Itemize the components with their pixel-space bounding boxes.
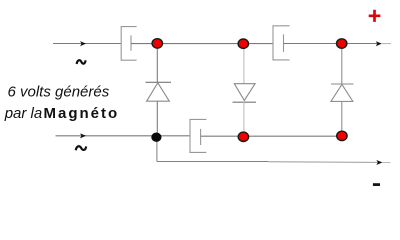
svg-text:par la Magnéto: par la Magnéto [4, 105, 119, 122]
svg-text:6 volts générés: 6 volts générés [8, 84, 110, 101]
